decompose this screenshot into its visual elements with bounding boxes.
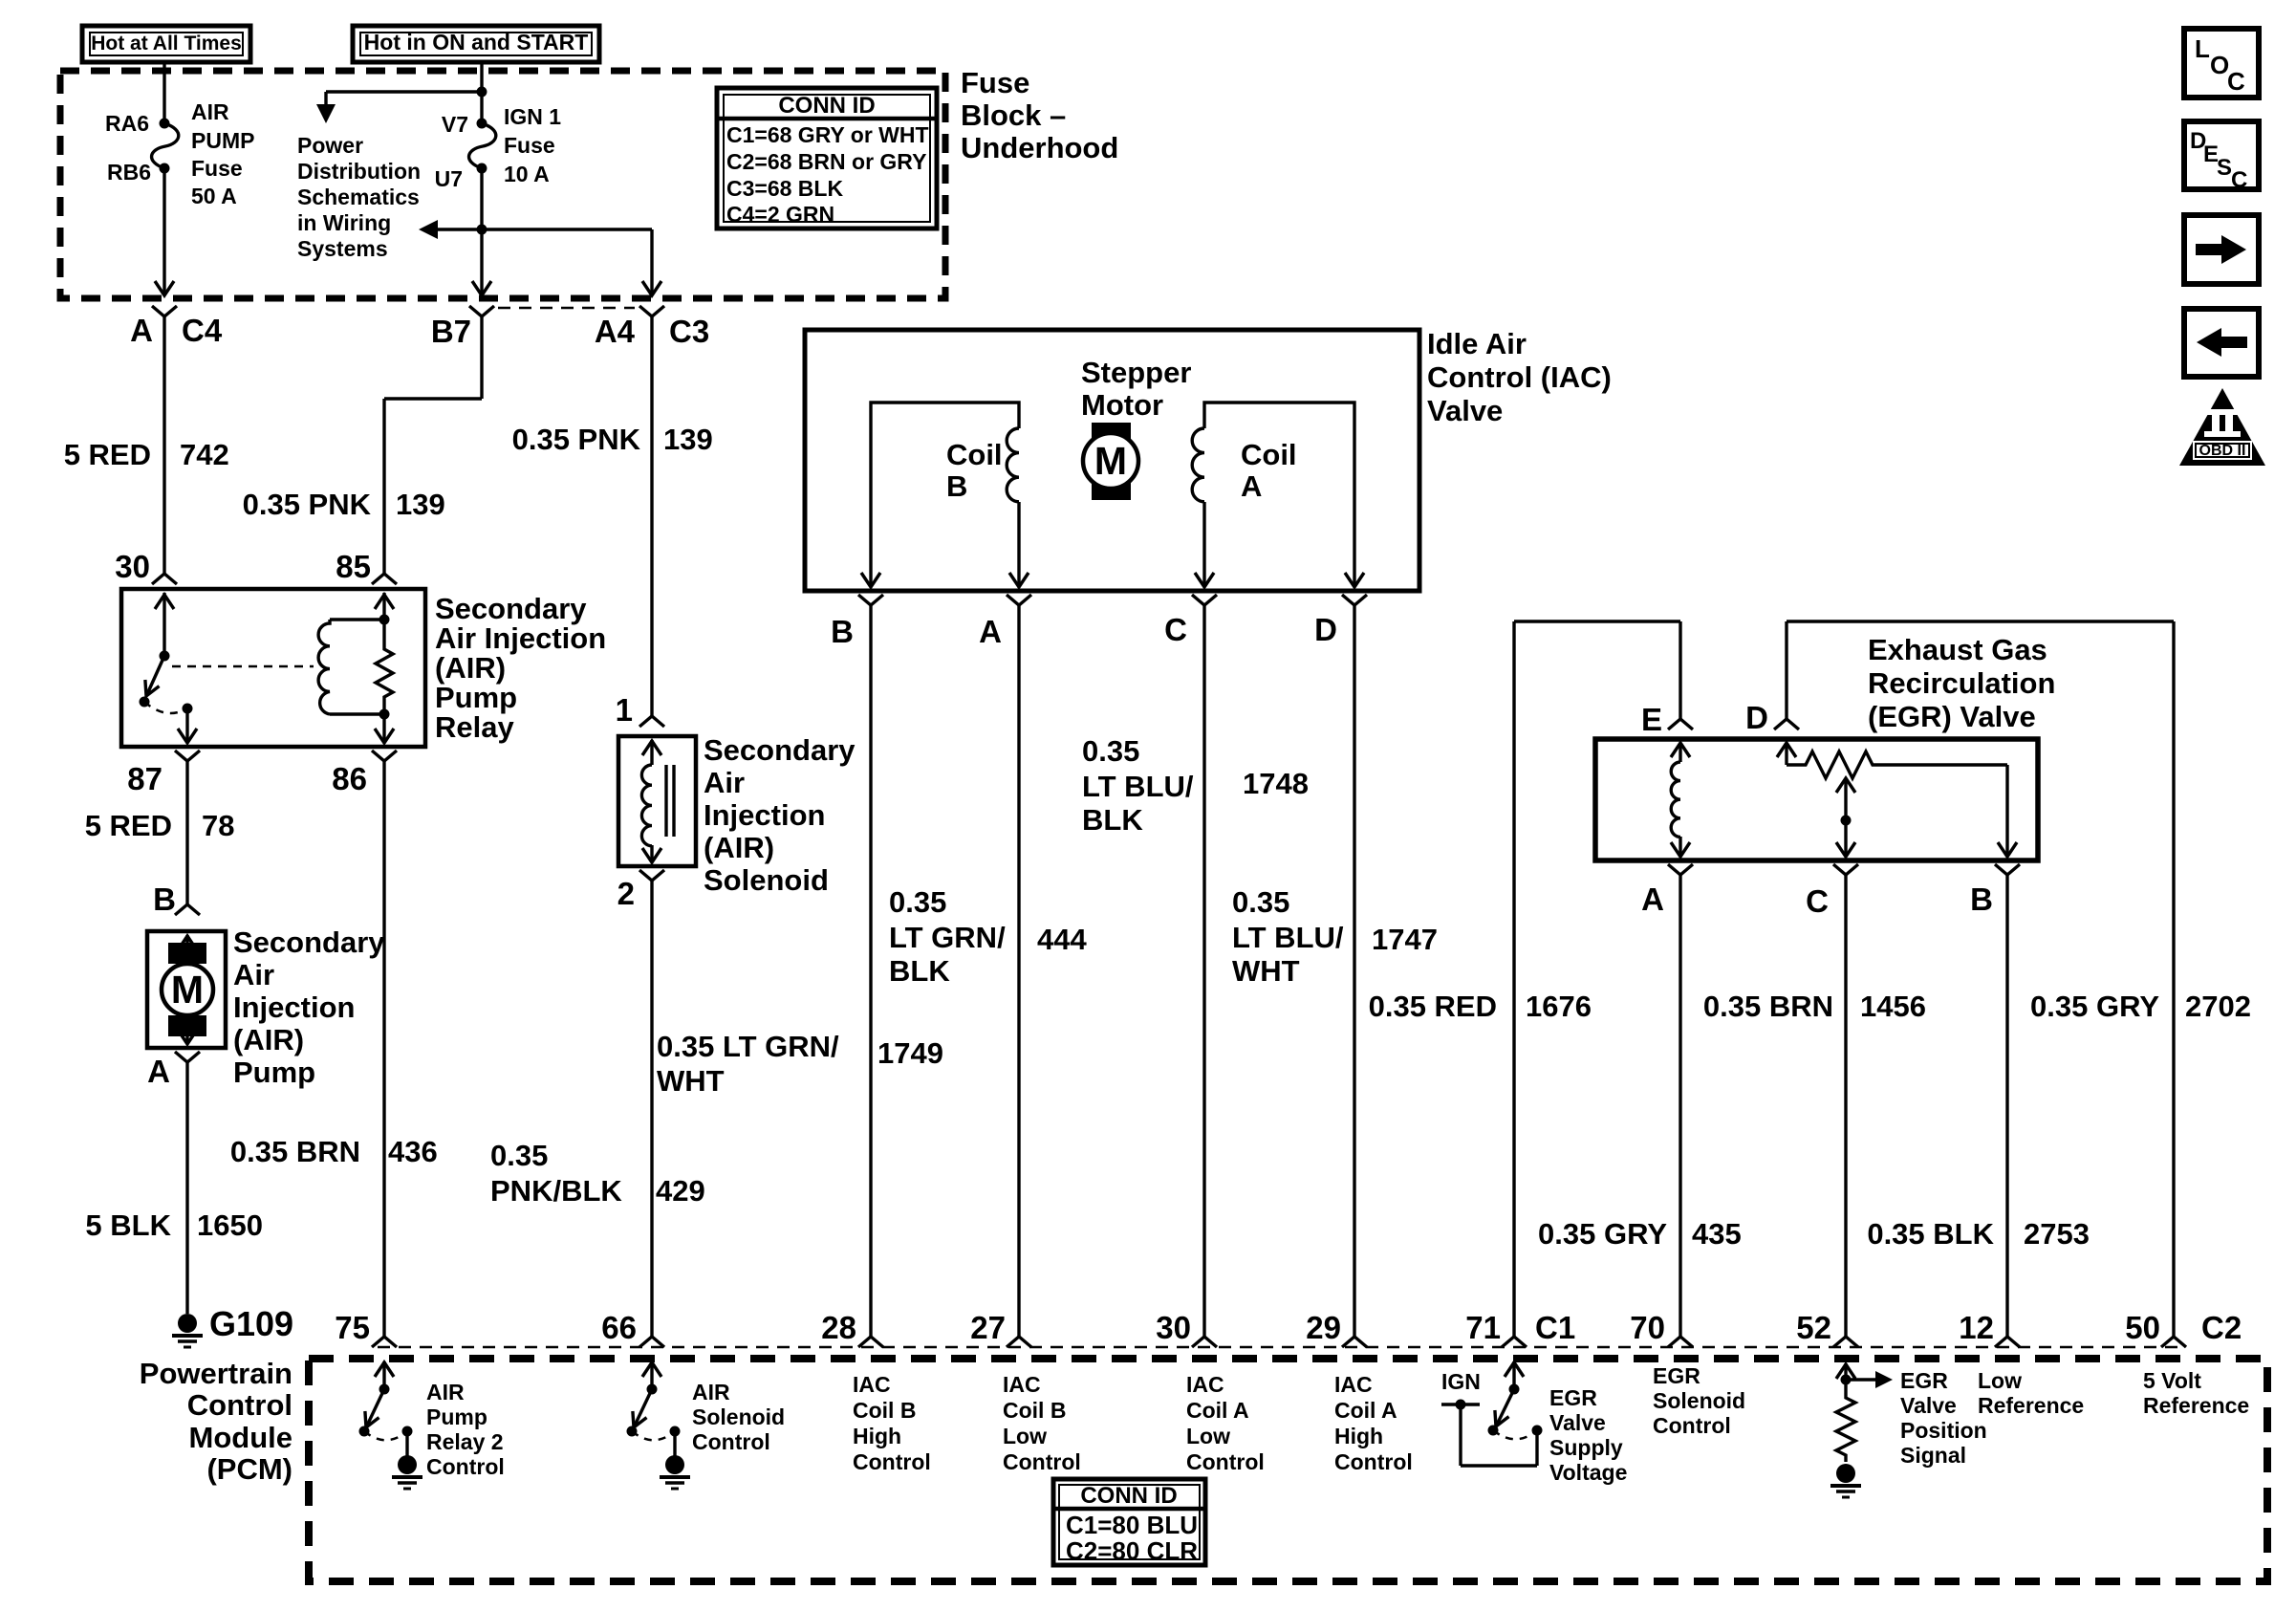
connector pin A below IAC: [1007, 595, 1031, 1337]
svg-text:C3=68 BLK: C3=68 BLK: [726, 176, 843, 201]
connector pin 1 at AIR solenoid: [639, 716, 664, 727]
svg-text:Control: Control: [426, 1454, 505, 1479]
connector pin 50 at PCM: [2161, 1337, 2186, 1347]
svg-text:Control: Control: [1003, 1449, 1081, 1474]
svg-text:M: M: [1094, 439, 1127, 483]
label 28: [821, 1310, 856, 1345]
label V7: [442, 112, 468, 137]
wire label 0.35 PNK 139 for C3 feed: [512, 423, 713, 456]
ground at PCM pin 52: [1830, 1464, 1861, 1497]
label AIR Pump Relay 2 Control: [426, 1380, 505, 1479]
svg-text:Control (IAC): Control (IAC): [1427, 360, 1612, 394]
svg-text:A: A: [147, 1054, 170, 1089]
label A: [147, 1054, 170, 1089]
svg-text:A: A: [130, 313, 153, 348]
svg-text:WHT: WHT: [1232, 954, 1300, 988]
svg-text:BLK: BLK: [1082, 803, 1143, 837]
label IGN: [1441, 1369, 1481, 1394]
wire label 0.35 RED 1676: [1369, 990, 1592, 1023]
connector pin B below IAC: [858, 595, 883, 1337]
connector pin 66 at PCM: [639, 1337, 664, 1347]
svg-text:G109: G109: [209, 1304, 293, 1343]
wire label 0.35 BLK 2753: [1867, 1217, 2090, 1251]
svg-text:0.35 BLK: 0.35 BLK: [1867, 1217, 1994, 1251]
EGR pintle position sensor potentiometer: [1777, 743, 2017, 857]
svg-text:Exhaust Gas: Exhaust Gas: [1868, 633, 2047, 666]
label RB6: [107, 160, 151, 185]
wire hot-at-all-times to fuse RA6: [162, 62, 165, 123]
connector pin 87 below relay: [175, 751, 200, 904]
connector pin 27 at PCM: [1007, 1337, 1031, 1347]
label C1: [1535, 1310, 1575, 1345]
svg-text:AIR: AIR: [692, 1380, 730, 1404]
junction at branch to power distribution: [477, 87, 487, 98]
svg-text:L: L: [2195, 34, 2210, 63]
label C: [1806, 883, 1829, 919]
svg-text:IAC: IAC: [1334, 1372, 1373, 1397]
svg-text:Low: Low: [1978, 1368, 2022, 1393]
svg-text:2: 2: [617, 876, 635, 911]
svg-text:S: S: [2217, 155, 2232, 181]
connector pin 86 below relay: [372, 751, 397, 1337]
svg-text:EGR: EGR: [1900, 1368, 1948, 1393]
svg-text:C1=68 GRY or WHT: C1=68 GRY or WHT: [726, 122, 929, 147]
label 71: [1465, 1310, 1501, 1345]
label B7: [431, 314, 471, 349]
svg-text:Secondary: Secondary: [704, 733, 856, 767]
label B: [831, 614, 854, 649]
wire label 0.35 GRY 2702: [2030, 990, 2251, 1023]
svg-text:BLK: BLK: [889, 954, 950, 988]
svg-text:Control: Control: [187, 1388, 292, 1422]
svg-text:C4: C4: [182, 313, 223, 348]
svg-text:Valve: Valve: [1549, 1410, 1606, 1435]
connector pin 85 at relay: [372, 574, 397, 584]
svg-text:0.35 GRY: 0.35 GRY: [1538, 1217, 1667, 1251]
wire D stem: [1785, 621, 1787, 719]
svg-text:12: 12: [1959, 1310, 1994, 1345]
svg-text:139: 139: [663, 423, 713, 456]
wire label 0.35 LT BLU/ WHT 1747: [1232, 885, 1438, 988]
svg-text:AIR: AIR: [191, 99, 229, 124]
svg-text:Recirculation: Recirculation: [1868, 666, 2055, 700]
svg-text:Secondary: Secondary: [435, 592, 587, 625]
label 30: [115, 549, 150, 584]
label 87: [127, 761, 162, 796]
icon OBD II triangle: [2179, 388, 2265, 466]
wire label 0.35 PNK/BLK 429: [490, 1139, 705, 1208]
svg-text:C: C: [1164, 612, 1187, 647]
svg-text:Distribution: Distribution: [297, 159, 421, 184]
svg-text:Pump: Pump: [435, 681, 517, 714]
svg-text:Secondary: Secondary: [233, 925, 385, 959]
svg-text:1: 1: [616, 692, 633, 728]
label IAC Coil B Low Control: [1003, 1372, 1081, 1474]
svg-text:A: A: [979, 614, 1002, 649]
svg-text:C: C: [2231, 167, 2247, 193]
svg-text:C1=80 BLU: C1=80 BLU: [1066, 1511, 1198, 1539]
svg-text:2702: 2702: [2185, 990, 2251, 1023]
wire E stem: [1679, 621, 1681, 719]
CONN ID table top: [717, 88, 937, 229]
svg-text:E: E: [1641, 702, 1662, 737]
svg-text:0.35 BRN: 0.35 BRN: [230, 1135, 360, 1168]
svg-text:IAC: IAC: [1186, 1372, 1224, 1397]
svg-text:50 A: 50 A: [191, 184, 237, 208]
svg-text:Coil A: Coil A: [1334, 1398, 1397, 1423]
svg-text:C2: C2: [2201, 1310, 2242, 1345]
svg-text:Solenoid: Solenoid: [1653, 1388, 1745, 1413]
svg-text:C: C: [2227, 67, 2245, 96]
wire EGR supply feed to PCM 71: [1514, 621, 1680, 1337]
svg-text:WHT: WHT: [657, 1064, 725, 1098]
label IAC Coil A High Control: [1334, 1372, 1413, 1474]
svg-text:75: 75: [335, 1310, 370, 1345]
svg-text:87: 87: [127, 761, 162, 796]
svg-text:139: 139: [396, 488, 445, 521]
svg-text:Solenoid: Solenoid: [692, 1404, 785, 1429]
label EGR Solenoid Control: [1653, 1363, 1745, 1438]
svg-text:78: 78: [202, 809, 234, 842]
EGR solenoid coil: [1671, 743, 1690, 857]
label A4: [595, 314, 636, 349]
svg-text:429: 429: [656, 1174, 705, 1208]
power label Hot in ON and START: [353, 26, 599, 62]
svg-text:0.35: 0.35: [490, 1139, 548, 1172]
svg-text:50: 50: [2125, 1310, 2160, 1345]
connector pin 30 at PCM: [1192, 1337, 1217, 1347]
wire U7 down to fuse block edge: [472, 168, 491, 295]
svg-text:IAC: IAC: [1003, 1372, 1041, 1397]
label Powertrain Control Module (PCM): [140, 1357, 292, 1486]
wire label 0.35 LT GRN/ WHT 1749: [657, 1030, 943, 1098]
svg-text:10 A: 10 A: [504, 162, 550, 186]
connector pin 52 at PCM: [1833, 1337, 1858, 1347]
svg-text:Control: Control: [1334, 1449, 1413, 1474]
EGR pot wiper: [1836, 778, 1855, 857]
label B: [1970, 882, 1993, 917]
svg-text:71: 71: [1465, 1310, 1501, 1345]
svg-text:85: 85: [336, 549, 371, 584]
fuse block underhood dashed box: [60, 71, 945, 298]
svg-text:5 RED: 5 RED: [64, 438, 151, 471]
svg-text:5 RED: 5 RED: [85, 809, 172, 842]
svg-text:M: M: [171, 968, 204, 1012]
svg-text:0.35: 0.35: [889, 885, 946, 919]
svg-text:1749: 1749: [877, 1036, 943, 1070]
svg-text:Position: Position: [1900, 1418, 1987, 1443]
relay switch contact from pin 30: [140, 593, 198, 743]
svg-text:Underhood: Underhood: [961, 131, 1118, 164]
svg-text:Control: Control: [853, 1449, 931, 1474]
relay coil: [318, 593, 394, 720]
connector pin 70 at PCM: [1668, 1337, 1693, 1347]
connector pin 75 at PCM: [372, 1337, 397, 1347]
label 2: [617, 876, 635, 911]
PCM pin 52 EGR position sense resistor: [1836, 1363, 1893, 1462]
label EGR Valve Position Signal: [1900, 1368, 1987, 1468]
svg-text:Voltage: Voltage: [1549, 1460, 1627, 1485]
svg-text:B: B: [946, 469, 967, 503]
svg-text:Coil B: Coil B: [1003, 1398, 1066, 1423]
IAC stepper motor M2: [1083, 423, 1138, 500]
svg-text:RA6: RA6: [105, 111, 149, 136]
svg-text:C3: C3: [669, 314, 709, 349]
svg-text:C: C: [1806, 883, 1829, 919]
wire branch to power distribution schematics: [316, 92, 482, 123]
label AIR PUMP Fuse 50 A: [191, 99, 254, 208]
wire hot-in-on to IGN1 fuse: [480, 62, 483, 123]
label Stepper Motor: [1081, 356, 1191, 422]
label 5 Volt Reference: [2143, 1368, 2249, 1418]
label D: [1314, 612, 1337, 647]
svg-text:Pump: Pump: [233, 1056, 315, 1089]
IAC coil B: [861, 403, 1029, 587]
svg-text:Signal: Signal: [1900, 1443, 1966, 1468]
label IGN 1 Fuse 10 A: [504, 104, 561, 186]
svg-text:B: B: [831, 614, 854, 649]
svg-text:High: High: [1334, 1424, 1383, 1448]
ground at PCM pin 66 driver: [660, 1455, 690, 1489]
svg-text:Power: Power: [297, 133, 363, 158]
svg-text:1748: 1748: [1243, 767, 1309, 800]
svg-text:Control: Control: [1186, 1449, 1265, 1474]
label 29: [1306, 1310, 1341, 1345]
svg-text:OBD II: OBD II: [2199, 443, 2246, 459]
motor M1 Secondary Air Injection (AIR) Pump: [147, 931, 226, 1048]
label 75: [335, 1310, 370, 1345]
svg-text:(AIR): (AIR): [704, 831, 774, 864]
label AIR Solenoid Control: [692, 1380, 785, 1454]
svg-text:LT GRN/: LT GRN/: [889, 921, 1006, 954]
svg-text:Valve: Valve: [1900, 1393, 1957, 1418]
svg-text:1747: 1747: [1372, 923, 1438, 956]
svg-text:Relay 2: Relay 2: [426, 1429, 504, 1454]
svg-text:5 Volt: 5 Volt: [2143, 1368, 2201, 1393]
wire label 5 RED 742: [64, 438, 229, 471]
svg-text:Control: Control: [692, 1429, 770, 1454]
label A: [1641, 882, 1664, 917]
connector A / C4 at fuse block output: [152, 306, 177, 574]
in-line connector dashed link B7 to A4: [498, 307, 635, 310]
label A: [130, 313, 153, 348]
svg-text:EGR: EGR: [1549, 1385, 1597, 1410]
svg-text:Valve: Valve: [1427, 394, 1503, 427]
label Coil A: [1241, 438, 1297, 503]
connector pin 2 below AIR solenoid: [639, 870, 664, 1337]
svg-text:V7: V7: [442, 112, 468, 137]
connector pin 28 at PCM: [858, 1337, 883, 1347]
svg-text:Hot in ON and START: Hot in ON and START: [364, 30, 589, 54]
svg-text:C2=68 BRN or GRY: C2=68 BRN or GRY: [726, 149, 926, 174]
label C4: [182, 313, 223, 348]
svg-text:742: 742: [180, 438, 229, 471]
svg-text:PNK/BLK: PNK/BLK: [490, 1174, 622, 1208]
svg-text:CONN ID: CONN ID: [778, 93, 875, 119]
svg-text:436: 436: [388, 1135, 438, 1168]
IAC valve assembly box: [805, 330, 1419, 591]
svg-text:70: 70: [1630, 1310, 1665, 1345]
label C: [1164, 612, 1187, 647]
svg-text:0.35 BRN: 0.35 BRN: [1703, 990, 1833, 1023]
svg-text:A: A: [1241, 469, 1262, 503]
label Secondary Air Injection (AIR) Pump Relay: [435, 592, 606, 744]
svg-text:Systems: Systems: [297, 236, 388, 261]
svg-text:Control: Control: [1653, 1413, 1731, 1438]
label E: [1641, 702, 1662, 737]
svg-text:Low: Low: [1003, 1424, 1047, 1448]
svg-text:D: D: [1314, 612, 1337, 647]
svg-text:PUMP: PUMP: [191, 128, 254, 153]
svg-text:IAC: IAC: [853, 1372, 891, 1397]
svg-text:Powertrain: Powertrain: [140, 1357, 292, 1390]
label 85: [336, 549, 371, 584]
icon next arrow box: [2184, 215, 2259, 284]
svg-text:Injection: Injection: [233, 991, 355, 1024]
ground G109: [172, 1314, 203, 1347]
connector pin B below EGR: [1995, 864, 2020, 1337]
svg-text:A: A: [1641, 882, 1664, 917]
label Exhaust Gas Recirculation (EGR) Valve: [1868, 633, 2055, 733]
svg-text:Supply: Supply: [1549, 1435, 1623, 1460]
connector pin A below AIR pump: [175, 1052, 200, 1314]
CONN ID table bottom: [1053, 1479, 1205, 1565]
svg-text:B: B: [1970, 882, 1993, 917]
label Power Distribution Schematics in Wiring Systems: [297, 133, 421, 261]
connector pin E at EGR: [1668, 719, 1693, 729]
relay U2 Secondary Air Injection (AIR) Pump Relay box: [121, 589, 425, 747]
connector A4 / C3: [639, 306, 664, 716]
svg-text:1650: 1650: [197, 1208, 263, 1242]
relay linkage dashed: [172, 665, 314, 668]
svg-text:30: 30: [1156, 1310, 1191, 1345]
wire label 0.35 LT GRN/ BLK 444: [889, 885, 1087, 988]
PCM driver pin 66 AIR solenoid control: [627, 1361, 681, 1456]
svg-text:C4=2 GRN: C4=2 GRN: [726, 202, 834, 227]
svg-text:0.35 RED: 0.35 RED: [1369, 990, 1497, 1023]
label G109: [209, 1304, 293, 1343]
svg-text:0.35 PNK: 0.35 PNK: [512, 423, 641, 456]
wire RB6 down to fuse block edge: [155, 168, 174, 295]
PCM switch pin 71 EGR valve supply voltage: [1441, 1361, 1543, 1466]
svg-text:86: 86: [332, 761, 367, 796]
svg-text:High: High: [853, 1424, 901, 1448]
wire B7 jog to relay pin 85: [384, 399, 482, 574]
svg-text:(EGR) Valve: (EGR) Valve: [1868, 700, 2036, 733]
svg-text:0.35 PNK: 0.35 PNK: [243, 488, 372, 521]
svg-text:Reference: Reference: [1978, 1393, 2084, 1418]
svg-text:Idle Air: Idle Air: [1427, 327, 1527, 360]
svg-text:Stepper: Stepper: [1081, 356, 1191, 389]
svg-text:1456: 1456: [1860, 990, 1926, 1023]
junction dot branch to C3 feed: [477, 225, 487, 235]
svg-text:IGN: IGN: [1441, 1369, 1481, 1394]
label Fuse Block Underhood: [961, 66, 1118, 164]
PCM dashed box: [309, 1359, 2267, 1581]
PCM connector interface dashed line: [378, 1346, 2184, 1349]
fuse AIR PUMP 50A: [152, 119, 179, 174]
label Low Reference: [1978, 1368, 2084, 1418]
label 52: [1796, 1310, 1831, 1345]
svg-text:CONN ID: CONN ID: [1080, 1483, 1177, 1509]
label Secondary Air Injection (AIR) Solenoid: [704, 733, 856, 897]
icon previous arrow box: [2184, 309, 2259, 377]
wire label 5 BLK 1650: [85, 1208, 263, 1242]
connector pin 71 at PCM: [1502, 1337, 1527, 1347]
svg-text:Coil A: Coil A: [1186, 1398, 1249, 1423]
EGR valve box: [1595, 739, 2038, 860]
wire branch with left reference arrow: [419, 220, 661, 295]
connector B7: [469, 306, 494, 399]
label D: [1745, 700, 1768, 735]
svg-text:Motor: Motor: [1081, 388, 1163, 422]
svg-text:52: 52: [1796, 1310, 1831, 1345]
svg-text:28: 28: [821, 1310, 856, 1345]
svg-text:Schematics: Schematics: [297, 185, 420, 209]
svg-text:RB6: RB6: [107, 160, 151, 185]
svg-text:Coil: Coil: [946, 438, 1003, 471]
label IAC Coil B High Control: [853, 1372, 931, 1474]
svg-text:AIR: AIR: [426, 1380, 465, 1404]
label 50: [2125, 1310, 2160, 1345]
connector pin 12 at PCM: [1995, 1337, 2020, 1347]
PCM driver pin 75 AIR pump relay 2 control: [359, 1361, 413, 1456]
power label Hot at All Times: [82, 26, 250, 62]
wire EGR pot feed to PCM 50: [1787, 621, 2174, 1337]
wire label 0.35 BRN 1456: [1703, 990, 1926, 1023]
svg-text:Air: Air: [704, 766, 745, 799]
connector pin 30 at relay: [152, 574, 177, 584]
label A: [979, 614, 1002, 649]
label C2: [2201, 1310, 2242, 1345]
svg-text:Injection: Injection: [704, 798, 825, 832]
svg-text:in Wiring: in Wiring: [297, 210, 391, 235]
svg-text:Block –: Block –: [961, 98, 1066, 132]
connector pin D below IAC: [1342, 595, 1367, 1337]
relay pin 86 exit: [375, 714, 394, 743]
label Idle Air Control (IAC) Valve: [1427, 327, 1612, 427]
svg-text:2753: 2753: [2024, 1217, 2090, 1251]
svg-text:5 BLK: 5 BLK: [85, 1208, 171, 1242]
svg-text:27: 27: [970, 1310, 1006, 1345]
label 70: [1630, 1310, 1665, 1345]
svg-text:Module: Module: [189, 1421, 293, 1454]
svg-text:B7: B7: [431, 314, 471, 349]
wire label 0.35 PNK 139 for B7 feed: [243, 488, 445, 521]
svg-text:IGN 1: IGN 1: [504, 104, 561, 129]
svg-text:29: 29: [1306, 1310, 1341, 1345]
svg-text:C1: C1: [1535, 1310, 1575, 1345]
label 12: [1959, 1310, 1994, 1345]
svg-text:LT BLU/: LT BLU/: [1232, 921, 1344, 954]
svg-text:0.35: 0.35: [1232, 885, 1289, 919]
svg-text:Fuse: Fuse: [961, 66, 1029, 99]
solenoid L1 Secondary Air Injection (AIR) Solenoid: [618, 736, 696, 866]
svg-text:Coil: Coil: [1241, 438, 1297, 471]
svg-text:Low: Low: [1186, 1424, 1230, 1448]
fuse IGN 1 10A: [469, 119, 496, 174]
wire label 0.35 BRN 436: [230, 1135, 438, 1168]
icon LOC box: [2184, 29, 2259, 98]
label 86: [332, 761, 367, 796]
connector pin C below EGR: [1833, 864, 1858, 1337]
svg-text:B: B: [153, 882, 176, 917]
wire label 5 RED 78: [85, 809, 235, 842]
svg-text:30: 30: [115, 549, 150, 584]
wire label 0.35 GRY 435: [1538, 1217, 1742, 1251]
svg-text:Relay: Relay: [435, 710, 514, 744]
connector pin A below EGR: [1668, 864, 1693, 1337]
